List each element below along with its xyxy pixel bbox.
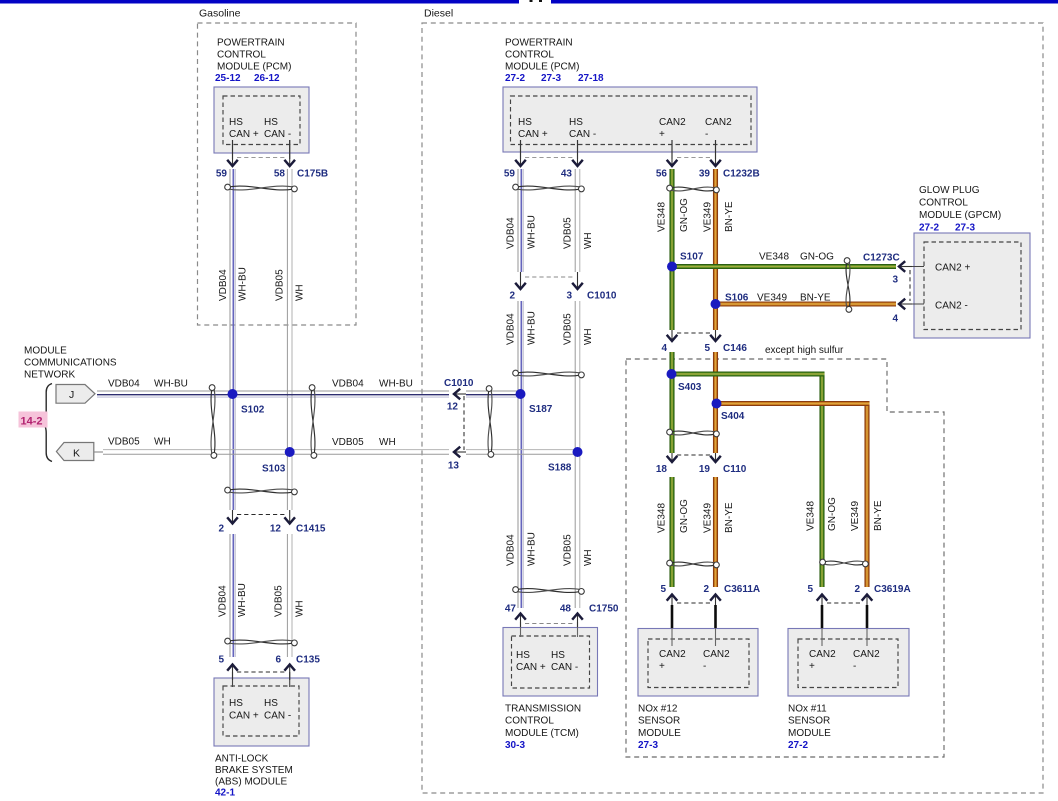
connector C175B pin numbers xyxy=(216,169,328,180)
svg-text:MODULE: MODULE xyxy=(24,346,67,357)
rotated labels diesel upper run xyxy=(506,215,595,249)
svg-text:C146: C146 xyxy=(723,343,747,354)
pin stub lines NOx #12 xyxy=(672,628,716,646)
svg-text:WH: WH xyxy=(583,328,594,345)
wire VE348 GN-OG branch horizontal (S403 to right branch) xyxy=(672,372,825,377)
svg-text:BN-YE: BN-YE xyxy=(724,201,735,232)
svg-text:VE349: VE349 xyxy=(850,501,861,531)
svg-text:48: 48 xyxy=(560,604,572,615)
wire VDB04 WH-BU horizontal (connector J to C1010 pin 12) xyxy=(97,391,449,397)
svg-text:VDB05: VDB05 xyxy=(332,437,364,448)
svg-text:VDB05: VDB05 xyxy=(563,534,574,566)
wire VDB05 WH gasoline vertical upper (PCM pin 58 to C1415) xyxy=(287,169,292,510)
svg-text:WH-BU: WH-BU xyxy=(237,583,248,617)
svg-text:CAN -: CAN - xyxy=(264,129,291,140)
svg-text:GN-OG: GN-OG xyxy=(827,497,838,531)
module ABS pin labels xyxy=(229,698,291,722)
module TCM transmission control (box) xyxy=(503,628,598,697)
splice S187 xyxy=(516,389,553,415)
svg-text:VE349: VE349 xyxy=(703,503,714,533)
svg-text:CAN +: CAN + xyxy=(229,129,259,140)
MODULE COMMUNICATIONS NETWORK label xyxy=(24,346,117,381)
svg-text:VDB04: VDB04 xyxy=(218,269,229,301)
svg-text:CAN2 -: CAN2 - xyxy=(935,301,968,312)
wire VE348 GN-OG right branch vertical (to C3619A pin 5) xyxy=(820,372,825,587)
module TCM title xyxy=(505,704,581,739)
wire VDB04 WH-BU horizontal (C1010 pin 12 to splice S187) xyxy=(466,391,521,397)
svg-text:CAN2: CAN2 xyxy=(659,117,686,128)
svg-text:27-3: 27-3 xyxy=(541,73,561,84)
svg-text:J: J xyxy=(69,389,74,401)
arrow into C1232B pin 59 xyxy=(515,140,526,166)
svg-text:WH: WH xyxy=(583,232,594,249)
wire VDB05 WH horizontal (C1010 pin 13 to splice S188) xyxy=(466,450,578,455)
connector C135 pin numbers xyxy=(218,655,320,666)
svg-text:3: 3 xyxy=(566,291,572,302)
svg-text:59: 59 xyxy=(216,169,228,180)
connector C1232B pin numbers xyxy=(504,169,760,180)
svg-text:MODULE: MODULE xyxy=(638,728,681,739)
connector C110 pin numbers xyxy=(656,464,747,475)
svg-text:GN-OG: GN-OG xyxy=(679,198,690,232)
svg-text:WH: WH xyxy=(583,549,594,566)
svg-text:MODULE (PCM): MODULE (PCM) xyxy=(505,62,579,73)
arrow into C1010 pin 2 xyxy=(515,272,526,289)
svg-text:VE349: VE349 xyxy=(757,293,787,304)
module ABS anti-lock brake (box) xyxy=(214,678,309,746)
wire VE349 BN-YE vertical (C110 to C3611A pin 2) xyxy=(713,477,718,587)
module GPCM page links 27-2 27-3 xyxy=(919,223,975,234)
svg-text:BN-YE: BN-YE xyxy=(724,502,735,533)
svg-text:SENSOR: SENSOR xyxy=(638,716,680,727)
svg-text:4: 4 xyxy=(892,314,898,325)
svg-text:39: 39 xyxy=(699,169,711,180)
wire label VDB04 WH-BU at J xyxy=(108,379,188,390)
svg-text:GN-OG: GN-OG xyxy=(679,499,690,533)
twisted pair below C175B xyxy=(225,184,298,192)
svg-text:K: K xyxy=(73,448,80,460)
twisted pair above C3611A xyxy=(667,560,720,568)
rotated labels right branch run xyxy=(806,497,885,531)
arrow into C1750 pin 48 xyxy=(572,614,583,628)
splice S106 xyxy=(711,293,749,310)
splice S103 xyxy=(262,447,295,475)
svg-text:27-18: 27-18 xyxy=(578,73,604,84)
svg-text:27-2: 27-2 xyxy=(505,73,525,84)
twisted pair above S187 xyxy=(513,370,585,378)
svg-text:-: - xyxy=(703,661,706,672)
svg-text:3: 3 xyxy=(892,275,898,286)
connector C3619A pin numbers xyxy=(807,584,910,595)
Diesel region dashed box xyxy=(422,8,1043,794)
svg-text:CAN +: CAN + xyxy=(516,662,546,673)
connector C1415 pin numbers xyxy=(218,524,325,535)
wire VE348 GN-OG vertical (PCM pin 56 to C146) xyxy=(670,169,675,330)
pin stub lines NOx #11 xyxy=(822,628,867,646)
svg-text:2: 2 xyxy=(703,584,709,595)
svg-text:VE349: VE349 xyxy=(703,202,714,232)
svg-text:VDB05: VDB05 xyxy=(108,437,140,448)
svg-text:WH-BU: WH-BU xyxy=(527,215,538,249)
svg-text:CAN2 +: CAN2 + xyxy=(935,263,970,274)
module NOx #12 title xyxy=(638,704,681,739)
svg-text:NOx #12: NOx #12 xyxy=(638,704,678,715)
connector C110 dashed link xyxy=(677,454,711,456)
svg-text:27-3: 27-3 xyxy=(638,740,658,751)
pin stub lines GPCM xyxy=(906,267,924,305)
connector C3611A dashed link xyxy=(677,602,711,604)
svg-text:HS: HS xyxy=(229,117,243,128)
svg-text:6: 6 xyxy=(275,655,281,666)
svg-text:12: 12 xyxy=(270,524,282,535)
svg-text:C135: C135 xyxy=(296,655,320,666)
svg-text:VDB05: VDB05 xyxy=(563,313,574,345)
svg-text:BN-YE: BN-YE xyxy=(873,500,884,531)
Gasoline region dashed box xyxy=(198,8,357,326)
svg-text:POWERTRAIN: POWERTRAIN xyxy=(217,38,285,49)
svg-text:C110: C110 xyxy=(723,464,747,475)
module PCM gasoline (box) xyxy=(214,87,309,153)
svg-text:CAN -: CAN - xyxy=(569,129,596,140)
svg-text:C3611A: C3611A xyxy=(724,584,760,595)
svg-text:4: 4 xyxy=(661,343,667,354)
svg-text:VE348: VE348 xyxy=(657,202,668,232)
svg-text:2: 2 xyxy=(218,524,224,535)
svg-text:5: 5 xyxy=(704,343,710,354)
svg-text:C1750: C1750 xyxy=(589,604,619,615)
svg-text:C1010: C1010 xyxy=(444,378,474,389)
wire VE348 GN-OG horizontal (S107 to GPCM C1273C pin 3) xyxy=(672,264,896,269)
svg-text:Gasoline: Gasoline xyxy=(199,8,241,20)
arrow into C1010 pin 12 xyxy=(454,389,466,400)
svg-text:WH-BU: WH-BU xyxy=(527,311,538,345)
svg-text:2: 2 xyxy=(854,584,860,595)
connector C3619A dashed link xyxy=(827,602,862,604)
svg-text:42-1: 42-1 xyxy=(215,787,235,798)
svg-text:47: 47 xyxy=(505,604,517,615)
svg-text:5: 5 xyxy=(807,584,813,595)
svg-text:MODULE (PCM): MODULE (PCM) xyxy=(217,62,291,73)
svg-text:CAN2: CAN2 xyxy=(705,117,732,128)
svg-text:C175B: C175B xyxy=(297,169,328,180)
svg-text:except high sulfur: except high sulfur xyxy=(765,345,844,356)
splice S188 xyxy=(548,447,583,474)
connector C1750 dashed link xyxy=(525,623,573,625)
svg-text:S107: S107 xyxy=(680,252,704,263)
svg-text:VDB04: VDB04 xyxy=(332,378,364,389)
module NOx #12 pin labels xyxy=(659,649,730,672)
svg-text:CAN2: CAN2 xyxy=(659,649,686,660)
twisted pair above C1750 xyxy=(513,587,585,595)
svg-text:MODULE (GPCM): MODULE (GPCM) xyxy=(919,210,1001,221)
rotated labels gasoline lower run xyxy=(218,583,306,617)
arrow into C3619A pin 2 xyxy=(862,595,873,629)
arrow into C135 pin 5 xyxy=(227,665,238,681)
svg-text:S404: S404 xyxy=(721,411,745,422)
twisted pair below S404 xyxy=(667,429,720,437)
top blue bar xyxy=(0,0,1058,4)
svg-text:43: 43 xyxy=(561,169,573,180)
svg-text:CONTROL: CONTROL xyxy=(505,50,554,61)
svg-text:NOx #11: NOx #11 xyxy=(788,704,827,715)
wire VE348 GN-OG vertical (C146 to C110) xyxy=(670,352,675,453)
svg-text:CAN -: CAN - xyxy=(551,662,578,673)
splice S403 xyxy=(667,369,702,393)
connector C146 pin numbers xyxy=(661,343,747,354)
arrow into C1232B pin 39 xyxy=(710,140,721,166)
svg-text:S403: S403 xyxy=(678,382,702,393)
splice S107 xyxy=(667,252,704,272)
wire VDB04 WH-BU gasoline vertical lower (C1415 to ABS pin 5) xyxy=(230,534,235,657)
svg-text:S106: S106 xyxy=(725,293,749,304)
svg-text:27-3: 27-3 xyxy=(955,223,975,234)
svg-text:CONTROL: CONTROL xyxy=(217,50,266,61)
arrow into C135 pin 6 xyxy=(284,665,295,681)
svg-text:BRAKE SYSTEM: BRAKE SYSTEM xyxy=(215,765,293,776)
svg-text:+: + xyxy=(809,661,815,672)
svg-text:WH-BU: WH-BU xyxy=(527,532,538,566)
connector C1273C labels xyxy=(863,253,900,325)
module PCM gasoline page links 25-12 26-12 xyxy=(215,73,280,84)
svg-text:VDB04: VDB04 xyxy=(218,585,229,617)
svg-text:MODULE (TCM): MODULE (TCM) xyxy=(505,728,579,739)
svg-text:WH: WH xyxy=(154,437,171,448)
arrow into C146 pin 4 xyxy=(667,330,678,341)
pin stub lines TCM xyxy=(521,622,578,637)
arrow into C110 pin 18 xyxy=(667,453,678,462)
arrow into C175B pin 59 xyxy=(227,140,238,166)
twisted pair above C3619A xyxy=(820,559,869,567)
twisted pair before S187 xyxy=(486,386,494,458)
svg-text:VDB04: VDB04 xyxy=(506,217,517,249)
connector C1010 pins 12/13 dashed link xyxy=(463,396,465,450)
svg-text:WH-BU: WH-BU xyxy=(154,379,188,390)
svg-text:WH: WH xyxy=(295,284,306,301)
svg-text:VDB04: VDB04 xyxy=(506,534,517,566)
wire VDB05 WH gasoline vertical lower (C1415 to ABS pin 6) xyxy=(287,534,292,657)
svg-text:CONTROL: CONTROL xyxy=(919,198,968,209)
arrow into C1010 pin 3 xyxy=(572,272,583,289)
node K connector xyxy=(56,443,103,461)
rotated labels gasoline upper run xyxy=(218,267,306,301)
module PCM gasoline title xyxy=(217,38,291,73)
connector C1232B dashed links xyxy=(525,157,711,159)
connector C1273C dashed link xyxy=(909,270,911,301)
svg-text:12: 12 xyxy=(447,402,459,413)
module GPCM pin labels CAN2+ CAN2- xyxy=(935,263,970,312)
svg-text:VDB05: VDB05 xyxy=(274,585,285,617)
svg-text:HS: HS xyxy=(551,650,565,661)
wire label VE349 BN-YE to GPCM xyxy=(757,293,831,304)
svg-text:C1232B: C1232B xyxy=(723,169,760,180)
except high sulfur region dashed box xyxy=(626,345,944,757)
wire VE349 BN-YE right branch vertical (to C3619A pin 2) xyxy=(865,402,870,588)
arrow into C175B pin 58 xyxy=(284,140,295,166)
svg-text:WH-BU: WH-BU xyxy=(379,378,413,389)
svg-text:2: 2 xyxy=(509,291,515,302)
arrow into C1415 pin 12 xyxy=(284,510,295,524)
svg-text:MODULE: MODULE xyxy=(788,728,831,739)
svg-text:CAN2: CAN2 xyxy=(809,649,836,660)
pin stub lines PCM gasoline xyxy=(233,140,290,159)
svg-text:58: 58 xyxy=(274,169,286,180)
twisted pair above C1415 xyxy=(225,487,298,495)
svg-text:NETWORK: NETWORK xyxy=(24,370,75,381)
arrow into C1750 pin 47 xyxy=(515,614,526,628)
svg-text:CAN +: CAN + xyxy=(229,711,259,722)
svg-text:HS: HS xyxy=(264,117,278,128)
arrow into C3611A pin 2 xyxy=(710,595,721,629)
svg-text:WH-BU: WH-BU xyxy=(238,267,249,301)
module PCM gasoline pin labels HS CAN+ / HS CAN- xyxy=(229,117,291,140)
arrow into C3619A pin 5 xyxy=(817,595,828,629)
svg-text:VDB05: VDB05 xyxy=(275,269,286,301)
svg-text:GN-OG: GN-OG xyxy=(800,252,834,263)
svg-text:HS: HS xyxy=(518,117,532,128)
arrow into C1273C pin 4 xyxy=(899,299,912,310)
arrow into C1010 pin 13 xyxy=(454,447,466,458)
svg-text:VDB04: VDB04 xyxy=(108,379,140,390)
rotated labels CAN2 pair lower run xyxy=(657,499,736,533)
svg-text:CAN -: CAN - xyxy=(264,711,291,722)
arrow into C110 pin 19 xyxy=(710,453,721,462)
svg-text:VE348: VE348 xyxy=(759,252,789,263)
svg-text:VDB05: VDB05 xyxy=(563,217,574,249)
svg-text:GLOW PLUG: GLOW PLUG xyxy=(919,185,980,196)
module PCM diesel pin labels xyxy=(518,117,732,140)
svg-text:27-2: 27-2 xyxy=(788,740,808,751)
svg-text:BN-YE: BN-YE xyxy=(800,293,831,304)
svg-text:+: + xyxy=(659,129,665,140)
svg-text:+: + xyxy=(659,661,665,672)
wire VDB05 WH diesel vertical upper (PCM pin 43 to C1010) xyxy=(575,169,580,272)
module GPCM glow plug control (box) xyxy=(914,233,1030,338)
arrow into C1273C pin 3 xyxy=(899,261,912,272)
svg-text:Diesel: Diesel xyxy=(424,8,453,20)
module TCM pin labels xyxy=(516,650,578,673)
svg-text:5: 5 xyxy=(218,655,224,666)
twisted pair below C1232B (WH pair) xyxy=(513,184,585,192)
svg-text:18: 18 xyxy=(656,464,668,475)
wire label VDB05 WH before C1010 xyxy=(332,437,396,448)
svg-text:25-12: 25-12 xyxy=(215,73,241,84)
twisted pair above C135 xyxy=(225,638,298,646)
svg-text:27-2: 27-2 xyxy=(919,223,939,234)
svg-text:WH: WH xyxy=(379,437,396,448)
svg-text:COMMUNICATIONS: COMMUNICATIONS xyxy=(24,358,117,369)
connector C3611A pin numbers xyxy=(660,584,760,595)
node J connector xyxy=(56,385,95,404)
wire label VE348 GN-OG to GPCM xyxy=(759,252,834,263)
svg-text:59: 59 xyxy=(504,169,516,180)
rotated labels diesel mid run xyxy=(506,311,595,345)
svg-text:13: 13 xyxy=(448,461,460,472)
svg-text:-: - xyxy=(853,661,856,672)
connector C146 dashed link xyxy=(677,332,711,334)
arrow into C3611A pin 5 xyxy=(667,595,678,629)
wire VE349 BN-YE vertical (PCM pin 39 to C146) xyxy=(713,169,718,330)
wire label VDB04 WH-BU before C1010 xyxy=(332,378,413,389)
svg-text:-: - xyxy=(705,129,708,140)
svg-text:56: 56 xyxy=(656,169,668,180)
svg-text:POWERTRAIN: POWERTRAIN xyxy=(505,38,573,49)
svg-text:HS: HS xyxy=(516,650,530,661)
module NOx #11 pin labels xyxy=(809,649,880,672)
wire VDB05 WH diesel vertical lower (C1010 to TCM pin 48) xyxy=(575,301,580,608)
rotated labels diesel lower run xyxy=(506,532,595,566)
svg-text:HS: HS xyxy=(229,698,243,709)
svg-text:14-2: 14-2 xyxy=(21,416,43,428)
svg-text:C3619A: C3619A xyxy=(874,584,911,595)
twisted pair on J/K pair left xyxy=(209,385,217,459)
module NOx #11 sensor (box) xyxy=(788,629,909,697)
svg-text:19: 19 xyxy=(699,464,711,475)
svg-text:S188: S188 xyxy=(548,463,572,474)
arrow into C1415 pin 2 xyxy=(227,510,238,524)
connector C1010 pins 12/13 labels xyxy=(444,378,474,472)
module GPCM title xyxy=(919,185,1001,221)
svg-text:TRANSMISSION: TRANSMISSION xyxy=(505,704,581,715)
brace for J/K xyxy=(41,384,52,462)
connector C1415 dashed link xyxy=(237,514,285,516)
pin stub lines ABS xyxy=(233,672,290,687)
svg-text:CAN2: CAN2 xyxy=(853,649,880,660)
connector C1750 pin numbers xyxy=(505,604,619,615)
module NOx #11 title xyxy=(788,704,831,739)
connector C1010 pins 2/3 labels xyxy=(509,291,616,302)
page link 14-2 xyxy=(19,412,48,428)
svg-text:S102: S102 xyxy=(241,405,265,416)
svg-text:HS: HS xyxy=(569,117,583,128)
wire VDB05 WH horizontal (connector K to C1010 pin 13) xyxy=(103,450,449,455)
svg-text:S103: S103 xyxy=(262,464,286,475)
module PCM diesel (box) xyxy=(503,87,757,152)
svg-text:SENSOR: SENSOR xyxy=(788,716,830,727)
svg-text:26-12: 26-12 xyxy=(254,73,280,84)
connector C1010 pins 2/3 dashed link xyxy=(525,276,573,278)
pin stub lines PCM diesel xyxy=(521,140,716,159)
svg-text:CAN +: CAN + xyxy=(518,129,548,140)
svg-text:VE348: VE348 xyxy=(806,501,817,531)
svg-text:WH: WH xyxy=(295,600,306,617)
svg-text:5: 5 xyxy=(660,584,666,595)
twisted pair on J/K pair right xyxy=(309,385,317,459)
arrow into C1232B pin 43 xyxy=(572,140,583,166)
wire VE348 GN-OG vertical (C110 to C3611A pin 5) xyxy=(670,477,675,587)
arrow into C1232B pin 56 xyxy=(667,140,678,166)
twisted pair below C1232B (CAN2 pair) xyxy=(667,185,720,193)
wire VE349 BN-YE branch horizontal (S404 to right branch) xyxy=(717,401,870,406)
module PCM diesel page links 27-2 27-3 27-18 xyxy=(505,73,604,84)
connector C135 dashed link xyxy=(237,671,285,673)
svg-text:VDB04: VDB04 xyxy=(506,313,517,345)
rotated labels CAN2 pair upper run xyxy=(657,198,736,232)
wire VE349 BN-YE vertical (C146 to C110) xyxy=(713,352,718,453)
splice S404 xyxy=(712,399,745,423)
module PCM diesel title xyxy=(505,38,579,73)
module NOx #12 sensor (box) xyxy=(638,629,758,697)
wire VDB04 WH-BU gasoline vertical upper (PCM pin 59 to C1415) xyxy=(230,169,235,510)
wire VE349 BN-YE horizontal (S106 to GPCM C1273C pin 4) xyxy=(716,302,897,307)
svg-text:ANTI-LOCK: ANTI-LOCK xyxy=(215,753,269,764)
svg-text:C1010: C1010 xyxy=(587,291,617,302)
svg-text:S187: S187 xyxy=(529,404,553,415)
svg-text:HS: HS xyxy=(264,698,278,709)
svg-text:C1415: C1415 xyxy=(296,524,326,535)
svg-text:(ABS) MODULE: (ABS) MODULE xyxy=(215,777,288,788)
svg-text:VE348: VE348 xyxy=(657,503,668,533)
wire VDB04 WH-BU diesel vertical upper (PCM pin 59 to C1010) xyxy=(518,169,523,272)
